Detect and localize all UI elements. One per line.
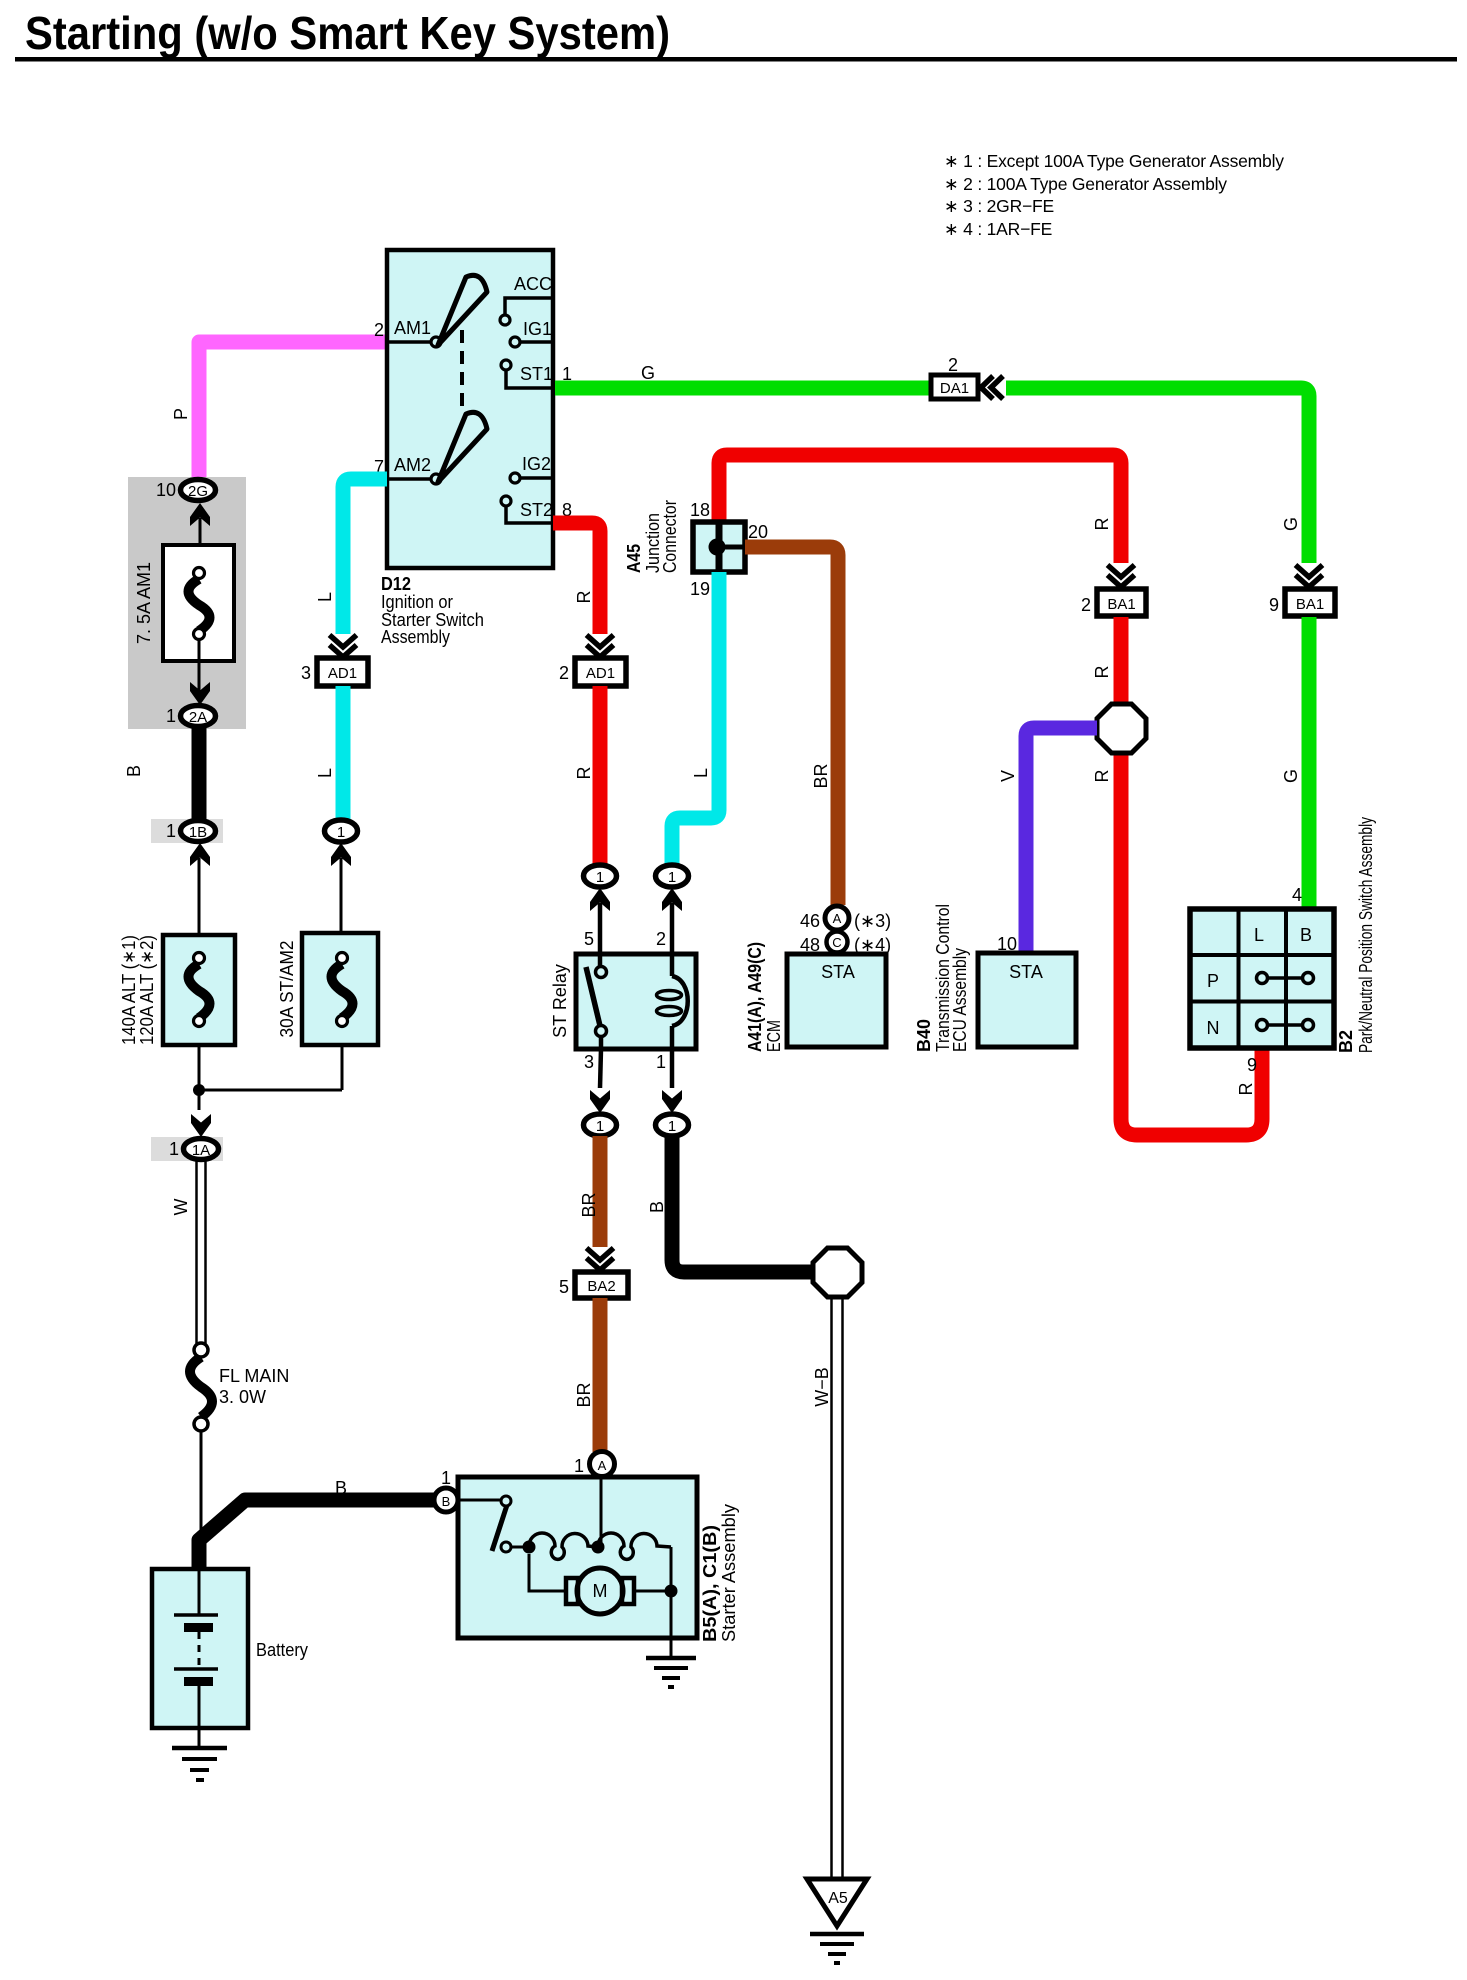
svg-text:R: R (1092, 770, 1112, 783)
pin 5 label (559, 1277, 569, 1297)
relay lever (586, 967, 601, 1030)
connector BA1 9 (1285, 589, 1335, 616)
svg-text:2: 2 (948, 355, 958, 375)
svg-text:W−B: W−B (812, 1367, 832, 1407)
D12 pin ACC (500, 274, 552, 325)
ST relay box (576, 954, 696, 1049)
chevron arrows into BA2 (587, 1248, 614, 1270)
label B5 C1 Starter Assembly (700, 1504, 739, 1642)
svg-text:3: 3 (301, 663, 311, 683)
svg-text:20: 20 (748, 522, 768, 542)
label G (1281, 517, 1301, 531)
arrow into 2A (190, 682, 210, 705)
svg-text:ECU Assembly: ECU Assembly (950, 948, 970, 1052)
starter assembly box (458, 1477, 697, 1638)
label B2 Park Neutral Position Switch Assembly (1336, 817, 1376, 1053)
B40 box (978, 953, 1076, 1047)
svg-text:2A: 2A (189, 709, 207, 726)
svg-text:Assembly: Assembly (381, 627, 450, 647)
connector 1 cyan L end (656, 865, 689, 887)
pin 10 label (156, 480, 176, 500)
splice octagon black (813, 1248, 862, 1297)
connector 1B (181, 821, 216, 842)
svg-text:Park/Neutral Position Switch A: Park/Neutral Position Switch Assembly (1356, 817, 1376, 1053)
svg-text:R: R (1236, 1083, 1256, 1096)
pin 19 label (690, 579, 710, 599)
starter coil 2 (598, 1533, 671, 1559)
D12 pin ST1 (501, 360, 553, 388)
wire 1B to ALT fuse (198, 858, 201, 935)
label B40 Transmission Control ECU Assembly (914, 904, 970, 1052)
svg-text:7. 5A AM1: 7. 5A AM1 (134, 562, 154, 644)
D12 pin IG1 (510, 319, 552, 347)
arrow into cyan 1 (331, 843, 351, 866)
pin 3 label (584, 1052, 594, 1072)
svg-text:1A: 1A (192, 1142, 210, 1159)
svg-text:1: 1 (166, 706, 176, 726)
svg-text:2: 2 (374, 320, 384, 340)
pin 18 label (690, 500, 710, 520)
label R (1092, 666, 1112, 679)
chevron arrows into BA1 green (1296, 565, 1323, 587)
starter wiring right branch (634, 1547, 671, 1591)
wire G green BA1 to B2 (1302, 617, 1317, 908)
svg-text:IG1: IG1 (523, 319, 552, 339)
svg-text:1: 1 (668, 1118, 676, 1135)
svg-text:ECM: ECM (764, 1020, 784, 1052)
key wedge AM1 (438, 275, 487, 345)
svg-text:19: 19 (690, 579, 710, 599)
wire FL MAIN to battery (200, 1431, 203, 1560)
svg-text:AD1: AD1 (586, 665, 615, 682)
cell label B (1300, 925, 1312, 945)
svg-text:A5: A5 (828, 1890, 848, 1907)
svg-text:10: 10 (156, 480, 176, 500)
connector 1 cyan end (325, 820, 358, 842)
svg-text:3. 0W: 3. 0W (219, 1387, 266, 1407)
key link dashed (460, 330, 464, 412)
svg-text:Starter Assembly: Starter Assembly (719, 1504, 739, 1642)
svg-text:L: L (315, 768, 335, 778)
wire L cyan AM2 to AD1 (343, 479, 387, 634)
wire ALT junction (199, 1045, 342, 1110)
connector AD1 3 (317, 658, 368, 686)
svg-text:P: P (1207, 971, 1219, 991)
pin 9 label (1269, 595, 1279, 615)
svg-text:∗ 2 : 100A Type Generator Asse: ∗ 2 : 100A Type Generator Assembly (944, 174, 1227, 194)
pin 1 label (656, 1052, 666, 1072)
ignition switch D12 box (387, 250, 553, 568)
svg-text:5: 5 (559, 1277, 569, 1297)
svg-text:BR: BR (574, 1382, 594, 1407)
label R near B2 (1236, 1083, 1256, 1096)
svg-text:STA: STA (821, 962, 855, 982)
label A45 Junction Connector (624, 500, 680, 573)
connector AD1 2 (575, 658, 626, 686)
svg-text:AM2: AM2 (394, 455, 431, 475)
svg-text:BA1: BA1 (1107, 596, 1135, 613)
svg-text:2G: 2G (188, 483, 208, 500)
wire B black relay 1 to splice (672, 1136, 813, 1272)
starter ground wire (670, 1591, 673, 1658)
label G (641, 363, 655, 383)
pin 1 label (574, 1456, 584, 1476)
svg-text:3: 3 (584, 1052, 594, 1072)
svg-text:Battery: Battery (256, 1640, 308, 1660)
starter motor M (566, 1568, 634, 1614)
splice octagon red (1097, 704, 1146, 753)
svg-text:4: 4 (1292, 885, 1302, 905)
label L (315, 768, 335, 778)
label BR (811, 763, 831, 788)
wire G green ST1 to DA1 (555, 381, 929, 396)
label B (124, 765, 144, 777)
pin 1 label (441, 1468, 451, 1488)
fusible link FL MAIN (190, 1343, 212, 1431)
svg-text:1: 1 (166, 821, 176, 841)
svg-text:9: 9 (1247, 1055, 1257, 1075)
ground battery (172, 1728, 227, 1780)
cell label N (1207, 1018, 1220, 1038)
B2 park neutral switch box (1190, 909, 1334, 1048)
label R (1092, 770, 1112, 783)
svg-text:10: 10 (997, 934, 1017, 954)
svg-text:V: V (998, 770, 1018, 782)
ECM box (787, 954, 886, 1047)
svg-text:1: 1 (596, 1118, 604, 1135)
B2 contact P row (1257, 973, 1314, 984)
wire V violet to B40 (1026, 728, 1097, 953)
svg-text:B5(A), C1(B): B5(A), C1(B) (700, 1525, 720, 1642)
svg-text:ST Relay: ST Relay (550, 964, 570, 1038)
svg-text:L: L (1254, 925, 1264, 945)
svg-text:R: R (574, 591, 594, 604)
svg-text:140A ALT (∗1): 140A ALT (∗1) (119, 935, 139, 1045)
connector A circle (590, 1452, 615, 1477)
connector 1 below relay 1 (656, 1114, 689, 1136)
label W (171, 1199, 191, 1216)
svg-text:2: 2 (656, 929, 666, 949)
svg-text:2: 2 (559, 663, 569, 683)
svg-text:A45: A45 (624, 544, 644, 573)
pin 10 label (997, 934, 1017, 954)
starter junction dot right (665, 1585, 678, 1598)
label ST Relay (550, 964, 570, 1038)
label R (574, 591, 594, 604)
svg-text:R: R (1092, 666, 1112, 679)
svg-text:B: B (647, 1201, 667, 1213)
svg-text:B: B (442, 1494, 451, 1509)
battery (152, 1569, 248, 1728)
svg-text:B: B (1300, 925, 1312, 945)
starter junction dot mid (592, 1541, 605, 1554)
note *4 (854, 935, 891, 955)
chevrons DA1 (981, 376, 1003, 399)
svg-text:BR: BR (579, 1192, 599, 1217)
svg-text:B40: B40 (914, 1019, 934, 1052)
pin 2 label (374, 320, 384, 340)
pin 2 label (559, 663, 569, 683)
note *3 (854, 911, 891, 931)
fuse 7.5A AM1 (163, 545, 234, 661)
connector 1A (184, 1139, 219, 1160)
label V (998, 770, 1018, 782)
svg-text:B: B (124, 765, 144, 777)
pin 20 label (748, 522, 768, 542)
svg-text:M: M (593, 1581, 608, 1601)
arrow into 1A (191, 1114, 211, 1137)
ECM connector A circle (825, 906, 849, 930)
wire L cyan AD1 to connector (336, 686, 351, 819)
label 2 above DA1 (948, 355, 958, 375)
pin 3 label (301, 663, 311, 683)
pin 1 label (562, 364, 572, 384)
svg-text:5: 5 (584, 929, 594, 949)
connector B circle (434, 1488, 458, 1512)
fuse block gray box (128, 477, 246, 729)
relay coil (657, 954, 688, 1049)
label A41 ECM (745, 942, 784, 1052)
svg-text:STA: STA (1009, 962, 1043, 982)
svg-text:(∗3): (∗3) (854, 911, 891, 931)
wire W white double (197, 1160, 206, 1344)
connector 2G (181, 480, 216, 501)
pin 1 label (166, 706, 176, 726)
chevron arrows into AD1 2 (587, 635, 614, 657)
pin 48 label (800, 935, 820, 955)
svg-text:46: 46 (800, 911, 820, 931)
pin 5 label (584, 929, 594, 949)
fuse 140A ALT (163, 935, 235, 1045)
wire BR brown relay 3 to BA2 (593, 1136, 608, 1247)
wire L cyan A45 to relay pin 2 connector (672, 572, 719, 864)
svg-text:1: 1 (656, 1052, 666, 1072)
svg-text:1: 1 (574, 1456, 584, 1476)
connector 1 red end (584, 865, 617, 887)
label 7.5A AM1 (134, 562, 154, 644)
junction connector A45 (693, 522, 745, 572)
svg-text:L: L (315, 592, 335, 602)
connector BA2 (575, 1272, 628, 1298)
starter wiring left branch (529, 1554, 566, 1591)
D12 pin IG2 (510, 454, 551, 483)
wire fuse to 2A (198, 639, 201, 694)
svg-text:AD1: AD1 (328, 665, 357, 682)
pin 9 label (1247, 1055, 1257, 1075)
svg-text:R: R (574, 767, 594, 780)
wire R red ST2 to AD1 (553, 523, 600, 634)
wire R red AD1 to relay connector (593, 686, 608, 864)
connector BA1 2 (1097, 589, 1146, 616)
starter switch (458, 1496, 524, 1552)
svg-text:∗ 4 : 1AR−FE: ∗ 4 : 1AR−FE (944, 219, 1052, 239)
B2 contact N row (1257, 1020, 1314, 1031)
svg-text:Starting (w/o Smart Key System: Starting (w/o Smart Key System) (25, 7, 670, 59)
wire B black thick 2A to 1B (192, 727, 207, 820)
svg-text:18: 18 (690, 500, 710, 520)
wire R red BA1 to B2 pin 9 (1121, 617, 1262, 1135)
arrow into 2G (190, 503, 210, 526)
arrow into 1B (190, 843, 210, 866)
svg-text:N: N (1207, 1018, 1220, 1038)
pin 4 label (1292, 885, 1302, 905)
label P (171, 408, 191, 420)
svg-text:R: R (1092, 518, 1112, 531)
svg-text:1: 1 (337, 824, 345, 841)
starter junction dot left (523, 1541, 536, 1554)
svg-text:1: 1 (596, 869, 604, 886)
fuse 30A ST/AM2 (302, 933, 378, 1045)
label BR (579, 1192, 599, 1217)
svg-text:P: P (171, 408, 191, 420)
wire G green DA1 to right corner down (1006, 388, 1309, 563)
key wedge AM2 (438, 412, 487, 482)
svg-text:IG2: IG2 (522, 454, 551, 474)
D12 pin ST2 (501, 496, 553, 523)
label B (647, 1201, 667, 1213)
label B (335, 1478, 347, 1498)
svg-text:G: G (641, 363, 655, 383)
connector DA1 (931, 375, 978, 399)
connector 1 below relay 3 (584, 1114, 617, 1136)
svg-text:1: 1 (668, 869, 676, 886)
svg-text:ST1: ST1 (520, 364, 553, 384)
wire 2G to fuse (199, 518, 202, 570)
svg-text:30A ST/AM2: 30A ST/AM2 (277, 941, 297, 1038)
svg-text:C: C (832, 935, 841, 950)
wire to relay pin 2 (670, 903, 675, 954)
svg-text:D12: D12 (381, 574, 411, 594)
title (15, 7, 1457, 62)
svg-text:L: L (691, 768, 711, 778)
pin 1 label (166, 821, 176, 841)
arrow into red 1 (590, 888, 610, 911)
arrow out of relay 1 (662, 1090, 682, 1113)
label G (1281, 769, 1301, 783)
svg-text:BR: BR (811, 763, 831, 788)
label R (574, 767, 594, 780)
ground A5 (807, 1879, 867, 1963)
wire W-B double to ground (832, 1297, 843, 1879)
svg-text:1: 1 (441, 1468, 451, 1488)
svg-text:DA1: DA1 (940, 380, 969, 397)
wire to 30A fuse (340, 858, 343, 933)
wire B battery to starter (199, 1500, 434, 1568)
svg-text:G: G (1281, 769, 1301, 783)
wire to relay pin 5 (598, 903, 603, 954)
D12 pin AM1 (387, 318, 441, 347)
svg-text:ST2: ST2 (520, 500, 553, 520)
svg-text:AM1: AM1 (394, 318, 431, 338)
svg-text:BA1: BA1 (1296, 596, 1324, 613)
connector 1A band (151, 1137, 223, 1161)
junction dot (193, 1084, 205, 1096)
relay contact pin 5 (596, 954, 607, 978)
connector 1B band (151, 819, 223, 843)
svg-text:∗ 1 : Except 100A Type Generat: ∗ 1 : Except 100A Type Generator Assembl… (944, 151, 1284, 171)
pin 2 label (1081, 595, 1091, 615)
svg-text:W: W (171, 1199, 191, 1216)
wire relay pin 1 down (670, 1049, 675, 1088)
svg-text:G: G (1281, 517, 1301, 531)
svg-text:120A ALT (∗2): 120A ALT (∗2) (137, 935, 157, 1045)
legend notes (944, 151, 1284, 239)
label BR (574, 1382, 594, 1407)
svg-text:Ignition or: Ignition or (381, 592, 453, 612)
svg-text:A41(A), A49(C): A41(A), A49(C) (745, 942, 765, 1052)
svg-text:∗ 3 : 2GR−FE: ∗ 3 : 2GR−FE (944, 196, 1054, 216)
label L (691, 768, 711, 778)
label L (315, 592, 335, 602)
pin 46 label (800, 911, 820, 931)
D12 pin AM2 (387, 455, 441, 484)
arrow into cyan L 1 (662, 888, 682, 911)
chevron arrows into BA1 2 (1108, 565, 1135, 587)
svg-text:BA2: BA2 (587, 1278, 615, 1295)
label 30A ST/AM2 (277, 941, 297, 1038)
label D12 Ignition or Starter Switch Assembly (381, 574, 484, 647)
svg-text:2: 2 (1081, 595, 1091, 615)
wire BR brown A45 to ECM (745, 547, 838, 905)
ECM connector C circle (827, 932, 848, 953)
svg-text:1B: 1B (189, 824, 207, 841)
label FL MAIN 3.0W (219, 1366, 289, 1407)
label Battery (256, 1640, 308, 1660)
wire P pink AM1 to 2G (199, 342, 387, 478)
svg-text:Connector: Connector (660, 500, 680, 573)
cell label L (1254, 925, 1264, 945)
starter coil 1 (529, 1533, 598, 1559)
arrow out of relay 3 (590, 1090, 610, 1113)
svg-text:9: 9 (1269, 595, 1279, 615)
svg-text:ACC: ACC (514, 274, 552, 294)
connector 2A (181, 706, 216, 727)
label 140A ALT (119, 935, 157, 1045)
pin 2 label (656, 929, 666, 949)
pin 7 label (374, 457, 384, 477)
svg-text:B: B (335, 1478, 347, 1498)
wire A to coil (600, 1477, 603, 1547)
svg-text:A: A (598, 1458, 607, 1473)
label W-B (812, 1367, 832, 1407)
wire R red A45 to BA1 2 (719, 455, 1121, 563)
label R (1092, 518, 1112, 531)
pin 8 label (562, 500, 572, 520)
relay contact pin 3 (596, 1026, 607, 1050)
svg-text:FL MAIN: FL MAIN (219, 1366, 289, 1386)
chevron arrows into AD1 3 (330, 635, 357, 657)
svg-text:1: 1 (169, 1139, 179, 1159)
cell label P (1207, 971, 1219, 991)
svg-text:B2: B2 (1336, 1030, 1356, 1053)
wire BR brown BA2 to starter A (593, 1298, 608, 1452)
svg-text:A: A (833, 911, 842, 926)
pin 1 label (169, 1139, 179, 1159)
wire relay pin 3 down (600, 1049, 601, 1088)
ground starter (646, 1658, 696, 1687)
